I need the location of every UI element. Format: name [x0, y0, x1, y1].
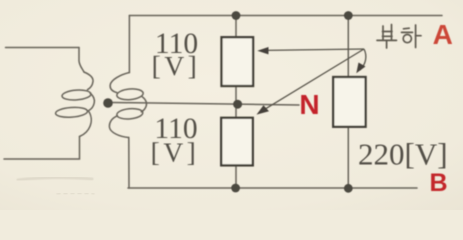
svg-text:N: N	[299, 89, 319, 120]
svg-text:220[V]: 220[V]	[358, 137, 448, 172]
svg-text:[V]: [V]	[151, 137, 200, 168]
svg-text:B: B	[429, 169, 447, 197]
svg-text:[V]: [V]	[152, 50, 201, 81]
svg-text:A: A	[433, 19, 453, 50]
